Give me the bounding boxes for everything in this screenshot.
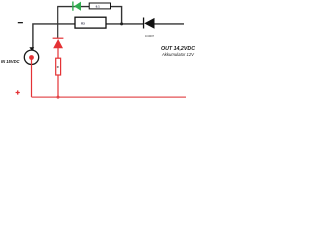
svg-text:IN 15VDC: IN 15VDC (1, 59, 20, 65)
source probe arrowhead into meter circle (29, 47, 34, 51)
wire red from meter dot to bottom rail (31, 58, 33, 97)
wire top branch: corner, through LED and R4 positions, down to junction (57, 7, 121, 24)
resistor R1 body (red) (56, 58, 61, 75)
wire grey vertical from top branch down to red LED (57, 7, 59, 38)
svg-text:9.1: 9.1 (96, 4, 101, 8)
svg-text:R3: R3 (81, 21, 85, 25)
svg-text:R: R (57, 65, 59, 69)
LED D red: cathode bar (53, 38, 64, 39)
diode D1 black: cathode bar (143, 18, 144, 29)
meter circle (input terminal) (24, 50, 38, 64)
node minus terminal label (18, 22, 23, 23)
wire red bottom rail (32, 96, 187, 98)
node plus terminal label (16, 90, 20, 94)
wire mid horizontal left: minus corner to regulator box (32, 24, 75, 50)
diode D1 black: triangle (144, 18, 154, 29)
wire red from resistor R1 down to bottom rail (57, 75, 59, 97)
resistor R4 body (89, 3, 110, 9)
svg-text:Akkumulator 12V: Akkumulator 12V (161, 52, 195, 57)
svg-text:1N4007: 1N4007 (145, 34, 155, 38)
regulator R3 body (75, 17, 106, 28)
wire red from LED to resistor R1 (57, 48, 59, 59)
meter red center dot (29, 55, 34, 60)
node junction dot at R4 branch and output wire (120, 22, 123, 25)
node red junction dot on bottom rail (57, 96, 60, 99)
wire mid horizontal right: regulator box to diode and out (106, 23, 184, 25)
LED D green: cathode bar (72, 2, 73, 11)
LED D green: triangle (74, 2, 81, 11)
LED D red: triangle pointing up (53, 39, 63, 48)
